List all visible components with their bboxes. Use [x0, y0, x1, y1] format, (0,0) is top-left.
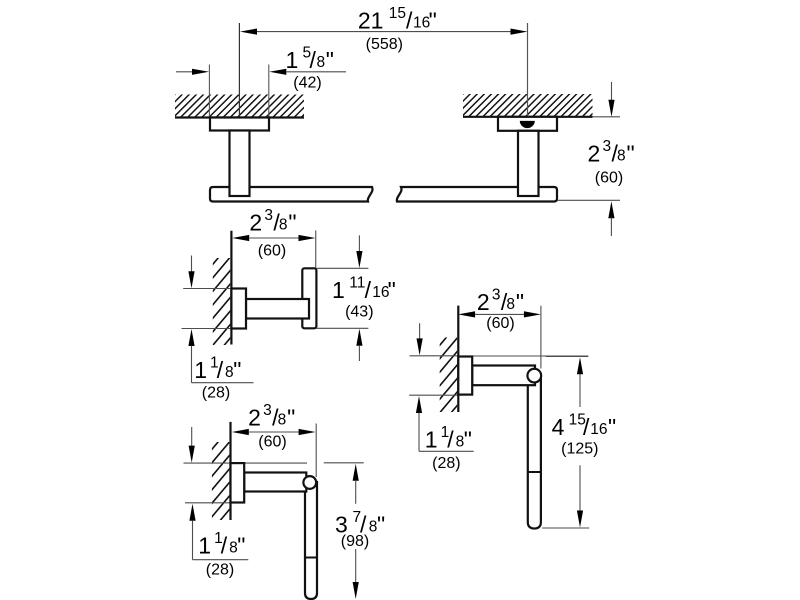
svg-text:": " — [516, 289, 524, 315]
svg-text:": " — [237, 532, 245, 558]
svg-text:(60): (60) — [595, 170, 623, 187]
svg-text:/: / — [583, 414, 590, 440]
svg-text:(98): (98) — [341, 533, 369, 550]
svg-text:(28): (28) — [202, 384, 230, 401]
svg-text:/: / — [310, 47, 317, 73]
svg-text:3: 3 — [264, 207, 273, 224]
svg-text:/: / — [217, 357, 224, 383]
svg-text:4: 4 — [552, 414, 565, 440]
svg-text:2: 2 — [477, 289, 490, 315]
svg-text:/: / — [447, 426, 454, 452]
svg-text:": " — [233, 357, 241, 383]
svg-text:": " — [388, 277, 396, 303]
svg-text:(42): (42) — [293, 75, 321, 92]
svg-text:(60): (60) — [258, 433, 286, 450]
svg-text:11: 11 — [349, 275, 365, 292]
svg-text:1: 1 — [198, 532, 211, 558]
svg-text:(558): (558) — [366, 36, 403, 53]
svg-text:": " — [608, 414, 616, 440]
svg-text:1: 1 — [194, 357, 207, 383]
svg-text:(60): (60) — [258, 243, 286, 260]
svg-text:(28): (28) — [206, 562, 234, 579]
svg-text:1: 1 — [286, 47, 299, 73]
svg-text:": " — [627, 141, 635, 167]
svg-text:15: 15 — [389, 5, 406, 22]
svg-text:16: 16 — [590, 421, 607, 438]
svg-text:8: 8 — [506, 296, 515, 313]
svg-text:3: 3 — [603, 138, 612, 155]
svg-text:8: 8 — [617, 148, 626, 165]
svg-text:": " — [377, 512, 385, 538]
svg-text:": " — [326, 47, 334, 73]
svg-text:(28): (28) — [432, 455, 460, 472]
svg-text:": " — [287, 405, 295, 431]
svg-text:1: 1 — [425, 426, 438, 452]
svg-text:8: 8 — [278, 412, 287, 429]
svg-text:(43): (43) — [345, 304, 373, 321]
svg-text:(125): (125) — [561, 441, 598, 458]
svg-text:21: 21 — [358, 8, 384, 34]
svg-text:/: / — [221, 532, 228, 558]
svg-text:": " — [288, 210, 296, 236]
svg-text:": " — [429, 8, 437, 34]
svg-text:8: 8 — [279, 217, 288, 234]
svg-text:3: 3 — [492, 287, 501, 304]
svg-text:3: 3 — [263, 402, 272, 419]
svg-text:/: / — [406, 8, 413, 34]
svg-text:2: 2 — [248, 405, 261, 431]
svg-text:(60): (60) — [486, 315, 514, 332]
svg-text:/: / — [365, 277, 372, 303]
svg-text:2: 2 — [588, 141, 601, 167]
svg-text:1: 1 — [332, 277, 345, 303]
svg-text:8: 8 — [317, 54, 326, 71]
svg-text:2: 2 — [249, 210, 262, 236]
svg-text:": " — [464, 426, 472, 452]
